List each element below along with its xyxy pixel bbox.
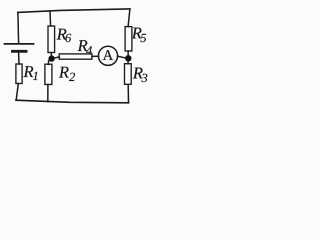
node B junction dot bbox=[125, 55, 131, 61]
wire node A to R4 bbox=[54, 57, 60, 58]
resistor R4 bbox=[59, 54, 92, 59]
wire R2 to bottom bbox=[47, 85, 49, 102]
wire top to R6 bbox=[49, 12, 52, 27]
label R3 bbox=[133, 68, 148, 83]
wire R5 to node B bbox=[127, 51, 129, 55]
wire node A to R2 bbox=[47, 61, 49, 65]
resistor R3 bbox=[125, 64, 132, 85]
resistor R1 bbox=[16, 64, 22, 84]
node A junction dot bbox=[48, 55, 54, 61]
wire R4 to ammeter bbox=[92, 55, 99, 57]
label R6 bbox=[57, 29, 72, 42]
wire ammeter to node B bbox=[118, 56, 126, 58]
battery cell short thick plate bbox=[13, 50, 27, 53]
resistor R2 bbox=[45, 64, 52, 84]
label R4 bbox=[78, 40, 92, 54]
wire node B to R3 bbox=[127, 61, 129, 64]
label R1 bbox=[23, 66, 37, 80]
wire battery to R1 bbox=[18, 53, 20, 64]
label R2 bbox=[59, 67, 75, 81]
resistor R6 bbox=[48, 26, 55, 53]
label A ammeter bbox=[103, 50, 113, 60]
wire top bbox=[18, 9, 130, 13]
wire right upper bbox=[128, 9, 130, 27]
wire R1 to bottom bbox=[16, 84, 18, 101]
battery cell long plate bbox=[5, 43, 34, 45]
label R5 bbox=[132, 28, 146, 43]
ammeter U1 bbox=[98, 46, 117, 65]
wire bottom bbox=[16, 100, 129, 103]
wire R3 to bottom bbox=[127, 85, 129, 103]
wire R6 to node A bbox=[50, 53, 52, 57]
resistor R5 bbox=[125, 27, 132, 51]
wire left upper bbox=[17, 12, 20, 43]
